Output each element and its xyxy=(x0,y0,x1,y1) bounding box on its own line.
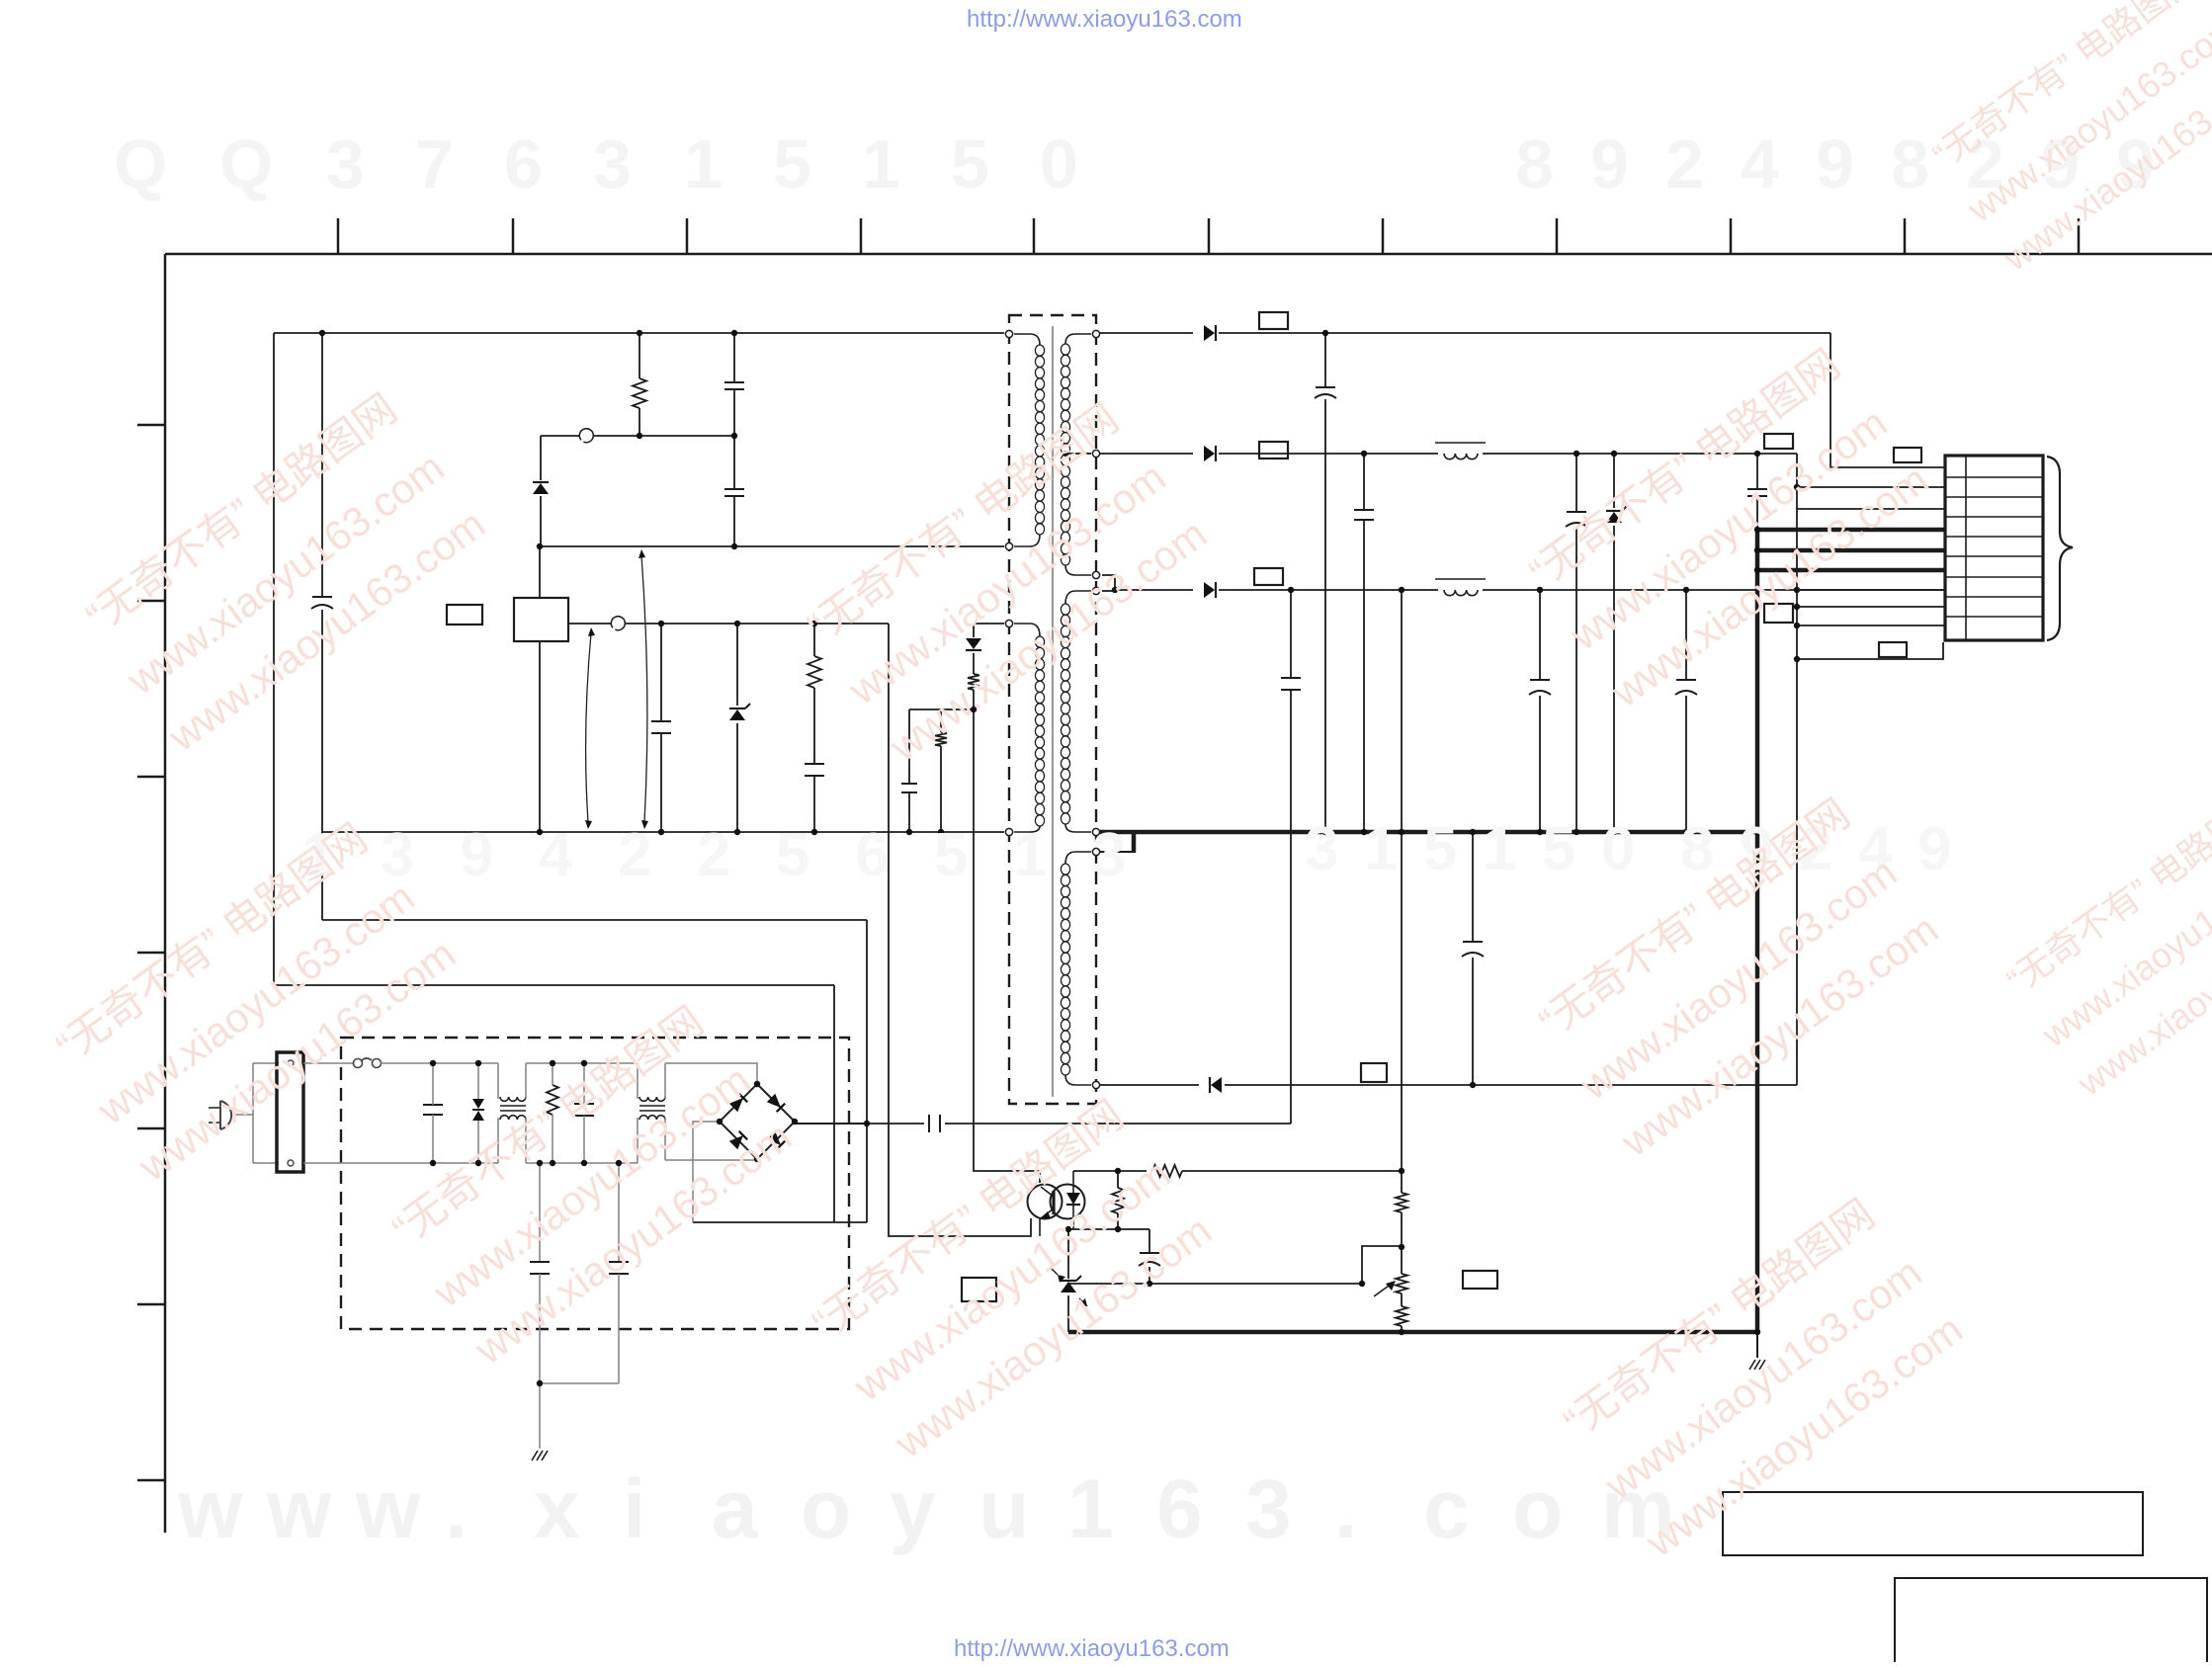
wire C12 top xyxy=(1539,590,1541,680)
capacitor C10 rail2 xyxy=(1566,512,1587,527)
wire C16 bottom xyxy=(432,1115,434,1163)
wire C14 top xyxy=(1472,831,1474,942)
wire snubber horizontal xyxy=(541,435,734,437)
zener diode D6 rail2 xyxy=(1606,506,1627,523)
svg-text:o: o xyxy=(801,1462,851,1555)
wire inner horizontal xyxy=(322,919,867,921)
red watermark 8 xyxy=(381,995,801,1374)
svg-text:7: 7 xyxy=(415,125,454,203)
transformer T1 primary pin bottom xyxy=(1005,542,1012,549)
wire C12 bottom xyxy=(1539,696,1541,832)
transformer T1 sec1 tap pin xyxy=(1092,450,1099,457)
wire R10 bottom xyxy=(552,1115,553,1163)
label box return xyxy=(1361,1063,1387,1082)
zener diode D2 xyxy=(729,704,750,720)
wire ac top a xyxy=(303,1062,353,1064)
diode D5 rail2 xyxy=(1204,446,1216,461)
capacitor C14 hang xyxy=(1462,942,1484,957)
wire R6 bottom xyxy=(1117,1213,1119,1229)
svg-text:y: y xyxy=(890,1462,936,1555)
wire C10 top xyxy=(1575,454,1577,512)
wire rail2 a xyxy=(1219,453,1438,455)
wire R4 bottom xyxy=(973,690,975,709)
wire C2 top xyxy=(733,436,735,489)
transformer T1 sec2 pin top xyxy=(1092,587,1099,594)
bridge BD1 diode tl xyxy=(729,1094,747,1112)
wire rail1 xyxy=(1219,332,1830,334)
svg-text:1: 1 xyxy=(1483,815,1516,883)
wire rail2 tap stub xyxy=(1069,453,1091,455)
wire ycap2 top xyxy=(618,1163,620,1262)
svg-text:3: 3 xyxy=(326,125,365,203)
wire row3 feed xyxy=(1797,508,1945,510)
wire plug fork xyxy=(252,1063,254,1163)
resistor R8 pot xyxy=(1396,1274,1407,1293)
wire divider chain top xyxy=(1401,590,1403,1193)
tvs D9 xyxy=(472,1099,484,1121)
ground chassis left xyxy=(532,1451,548,1460)
wire fork top xyxy=(253,1062,279,1064)
wire dc link right xyxy=(945,1123,1291,1125)
wire snubber corner xyxy=(540,436,542,480)
red watermark 5 xyxy=(1517,338,1937,716)
resistor R7 divider xyxy=(1396,1193,1407,1212)
red watermark small 2 xyxy=(1996,780,2212,1105)
wire ycap1 bottom xyxy=(539,1274,541,1383)
wire tl431 cathode xyxy=(1067,1229,1069,1279)
url watermark bottom xyxy=(954,1635,1230,1662)
red watermark small 1 xyxy=(1921,0,2212,279)
transformer T1 secondary3 winding xyxy=(1061,852,1091,1085)
red watermark 4 xyxy=(801,1089,1221,1467)
wire ac mid top xyxy=(526,1062,638,1064)
wire ycap link xyxy=(540,1382,619,1384)
svg-text:w: w xyxy=(266,1462,332,1555)
wire ac bottom a xyxy=(303,1162,498,1164)
capacitor C1 snubber xyxy=(724,382,744,389)
wire rail3 c xyxy=(1483,589,1945,591)
faint digits top left xyxy=(114,125,1078,203)
label box row1 xyxy=(1894,448,1921,462)
resistor R10 bleeder xyxy=(547,1085,558,1115)
svg-text:http://www.xiaoyu163.com: http://www.xiaoyu163.com xyxy=(954,1635,1230,1662)
capacitor C20 link xyxy=(311,597,333,609)
no-connect loop on U1 output xyxy=(611,617,625,630)
wire thick row6 xyxy=(1757,568,1945,573)
red watermark 6 xyxy=(1527,788,1947,1166)
svg-text:“无奇不有” 电路图网: “无奇不有” 电路图网 xyxy=(1999,782,2212,1001)
bridge BD1 diode br xyxy=(767,1131,785,1149)
transformer T1 primary winding xyxy=(1014,334,1045,546)
leader arrow 2 xyxy=(638,549,648,829)
wire fork bottom xyxy=(253,1162,279,1164)
svg-text:6: 6 xyxy=(1156,1462,1203,1555)
border left ruler line xyxy=(164,254,167,1533)
wire aux branch xyxy=(909,708,974,710)
wire bottom U link xyxy=(693,1221,867,1223)
svg-text:1: 1 xyxy=(1067,1462,1114,1555)
border left ruler ticks xyxy=(137,425,165,1480)
svg-text:2: 2 xyxy=(697,821,730,889)
wire under loop xyxy=(1797,642,1943,659)
wire rail1 drop to connector xyxy=(1830,333,1945,467)
capacitor C5 xyxy=(901,784,917,792)
label box near C11 xyxy=(1764,434,1793,449)
wire feedback riser xyxy=(1290,690,1292,1124)
capacitor C16 X xyxy=(423,1105,443,1115)
wire fb top xyxy=(1072,1171,1074,1185)
wire C8 bottom xyxy=(1324,399,1326,832)
transformer T1 secondary1 winding xyxy=(1061,334,1091,575)
svg-text:1: 1 xyxy=(1364,815,1398,883)
svg-text:5: 5 xyxy=(776,821,809,889)
wire aux down to opto xyxy=(974,709,1040,1183)
wire C3 bottom xyxy=(660,733,662,832)
svg-text:a: a xyxy=(712,1462,759,1555)
wire R1 top xyxy=(638,333,640,378)
title box 1 xyxy=(1723,1492,2143,1555)
transformer T1 aux pin top xyxy=(1005,620,1012,626)
label box row8 xyxy=(1764,604,1793,623)
resistor R2 xyxy=(808,656,821,688)
wire ac top b xyxy=(381,1062,498,1064)
wire C5 bottom xyxy=(908,792,910,832)
transformer T1 aux pin bottom xyxy=(1005,828,1012,835)
wire C4 bottom xyxy=(813,776,815,832)
diode D3 aux xyxy=(966,638,981,650)
wire tl431 anode xyxy=(1067,1295,1069,1332)
capacitor C4 xyxy=(805,764,824,776)
label box row9 xyxy=(1879,642,1907,657)
wire rail3 b xyxy=(1219,589,1438,591)
wire rail3 a xyxy=(1115,589,1193,591)
pot wiper arrow xyxy=(1374,1281,1396,1296)
transformer T1 core xyxy=(1052,326,1054,1097)
transformer T1 sec1 tap dot xyxy=(1063,451,1068,457)
wire fb step xyxy=(1362,1246,1402,1284)
wire plug stub xyxy=(235,1114,253,1116)
red watermark 1 xyxy=(74,382,494,761)
title box 2 xyxy=(1895,1578,2207,1667)
transformer T1 sec3 pin bottom xyxy=(1092,1081,1099,1088)
svg-text:Q: Q xyxy=(219,125,273,203)
wire R2 mid xyxy=(813,688,815,764)
ground chassis right xyxy=(1749,1360,1765,1370)
svg-text:6: 6 xyxy=(855,821,889,889)
wire R2 top xyxy=(813,624,815,656)
wire left outer vertical xyxy=(273,333,275,985)
wire C9 bottom xyxy=(1363,520,1365,832)
wire C9 top xyxy=(1363,454,1365,510)
wire feedback riser top xyxy=(1290,590,1292,678)
wire bridge bottom return xyxy=(756,1159,758,1160)
label box U1 xyxy=(447,605,482,625)
transformer T1 sec1 pin bottom xyxy=(1092,571,1099,578)
wire sec2 pin stub xyxy=(1100,851,1136,853)
red watermark 3 xyxy=(796,392,1216,771)
svg-text:0: 0 xyxy=(1601,815,1635,883)
wire R3 bottom xyxy=(940,746,942,832)
capacitor C8 rail1 xyxy=(1315,387,1336,398)
wire row7 feed xyxy=(1797,589,1945,591)
wire D9 bottom xyxy=(477,1121,479,1163)
wire inner drop lower xyxy=(321,610,323,920)
svg-text:6: 6 xyxy=(504,125,543,203)
label box pot xyxy=(1463,1271,1497,1289)
svg-text:w: w xyxy=(355,1462,421,1555)
wire row8 feed xyxy=(1797,606,1945,608)
wire rail3 junction stub xyxy=(1102,590,1117,592)
wire divider bottom xyxy=(1401,1326,1403,1332)
url watermark top xyxy=(967,6,1242,33)
wire C1 top xyxy=(733,333,735,382)
ac plug P1 xyxy=(209,1101,231,1129)
red watermark 7 xyxy=(1552,1188,1972,1566)
wire bridge bottom link xyxy=(665,1159,757,1161)
bridge rectifier BD1 outline xyxy=(720,1084,795,1159)
wire row2 feed xyxy=(1797,486,1945,488)
wire rail2 corner down xyxy=(1796,454,1798,487)
wire fb mid xyxy=(1068,1228,1149,1230)
resistor R1 snubber xyxy=(633,378,646,408)
optocoupler PC1 body xyxy=(1028,1185,1085,1219)
connector CN1 brace xyxy=(2047,457,2073,640)
inductor L1 rail2 xyxy=(1435,443,1486,459)
wire aux top xyxy=(974,623,1004,625)
label box rail2 xyxy=(1259,442,1288,458)
svg-text:8: 8 xyxy=(1680,815,1714,883)
resistor R3 aux xyxy=(935,732,947,746)
svg-text:9: 9 xyxy=(1590,125,1629,203)
wire C2 bottom xyxy=(733,496,735,546)
shunt regulator U2 xyxy=(1050,1267,1087,1306)
svg-text:8: 8 xyxy=(1891,125,1929,203)
capacitor C9 rail2 xyxy=(1354,510,1374,520)
ac connector J1 pins xyxy=(288,1060,294,1166)
wire rail2 b xyxy=(1483,453,1797,455)
wire C17 bottom xyxy=(583,1116,585,1163)
wire C8 top xyxy=(1324,333,1326,387)
choke L3 xyxy=(498,1063,526,1163)
wire ycap1 top xyxy=(539,1163,541,1262)
transformer T1 sec1 pin top xyxy=(1092,330,1099,337)
svg-text:i: i xyxy=(623,1462,645,1555)
faint digits middle left xyxy=(301,821,1126,889)
wire bridge left out xyxy=(693,1122,720,1222)
svg-text:3: 3 xyxy=(1245,1462,1292,1555)
wire primary feed xyxy=(540,545,1004,547)
transformer T1 secondary2 winding xyxy=(1061,591,1091,832)
wire rail3 from pins xyxy=(1102,575,1115,590)
wire thick row5 xyxy=(1757,548,1945,553)
capacitor C11 filter xyxy=(1747,489,1767,496)
label box rail3 xyxy=(1254,568,1283,585)
svg-text:5: 5 xyxy=(1542,815,1575,883)
wire opto emitter down xyxy=(1039,1218,1041,1236)
wire fb to divider b xyxy=(1182,1170,1402,1172)
wire C16 top xyxy=(432,1063,434,1105)
capacitor C2 snubber xyxy=(724,489,744,496)
svg-text:2: 2 xyxy=(618,821,651,889)
wire ycap1 gnd xyxy=(539,1383,541,1449)
wire ac to bridge top xyxy=(665,1063,757,1084)
wire thick row4 xyxy=(1757,528,1945,533)
wire C11 top xyxy=(1756,454,1758,489)
svg-text:1: 1 xyxy=(1013,821,1047,889)
transformer T1 aux winding xyxy=(1014,624,1045,832)
svg-text:8: 8 xyxy=(1515,125,1554,203)
wire ac mid bottom xyxy=(526,1162,638,1164)
wire inner drop from top rail xyxy=(321,333,323,597)
capacitor C19 Y xyxy=(609,1262,629,1274)
faint watermark bottom large xyxy=(177,1462,1675,1555)
border top ruler ticks xyxy=(338,218,2079,254)
wire divider mid a xyxy=(1401,1212,1403,1274)
transformer T1 box xyxy=(1009,315,1096,1104)
wire fb to divider xyxy=(1073,1170,1147,1172)
diode D8 return xyxy=(1210,1077,1222,1093)
svg-text:c: c xyxy=(1423,1462,1470,1555)
wire C15 top xyxy=(1149,1229,1150,1253)
bridge BD1 diode bl xyxy=(729,1131,747,1149)
svg-text:x: x xyxy=(534,1462,580,1555)
wire primary ground rail xyxy=(322,831,1004,833)
svg-text:5: 5 xyxy=(773,125,811,203)
wire D3 bottom xyxy=(973,653,975,674)
capacitor C18 Y xyxy=(530,1262,550,1274)
wire snubber diode lower xyxy=(540,496,542,546)
label box rail1 xyxy=(1259,312,1288,329)
svg-text:1: 1 xyxy=(684,125,723,203)
line filter dashed box xyxy=(341,1038,849,1329)
wire opto drive xyxy=(889,624,1031,1236)
diode D1 snubber xyxy=(533,482,549,494)
transformer T1 primary pin top xyxy=(1005,330,1012,337)
bridge BD1 diode tr xyxy=(767,1094,785,1112)
diode D7 rail3 xyxy=(1204,582,1216,598)
ac connector J1 box xyxy=(277,1052,303,1172)
optocoupler PC1 transistor xyxy=(1041,1187,1054,1218)
wire dc link xyxy=(867,1123,924,1125)
svg-text:Q: Q xyxy=(114,125,167,203)
capacitor C15 fb xyxy=(1139,1253,1160,1266)
svg-text:3: 3 xyxy=(593,125,632,203)
fuse F1 xyxy=(354,1058,382,1068)
transformer T1 sec2 pin bottom xyxy=(1092,828,1099,835)
red watermark 2 xyxy=(44,812,465,1191)
wire R1 bottom xyxy=(638,408,640,436)
wire thick ground vertical xyxy=(1755,530,1760,1334)
border top ruler line xyxy=(165,253,2212,256)
wire thick ground bus bottom xyxy=(1068,1330,1757,1335)
transformer T1 sec3 pin top xyxy=(1092,848,1099,855)
wire C10 bottom xyxy=(1575,528,1577,832)
capacitor C13 rail3 xyxy=(1675,680,1697,695)
wire D6 bottom xyxy=(1613,526,1615,832)
wire thick ground bus top xyxy=(1100,830,1757,835)
wire rail2 from pin xyxy=(1100,453,1193,455)
faint digits top right xyxy=(1515,125,2155,203)
capacitor C12 rail3 xyxy=(1529,680,1551,695)
svg-text:o: o xyxy=(1512,1462,1563,1555)
resistor R9 divider xyxy=(1396,1306,1407,1326)
svg-text:5: 5 xyxy=(1423,815,1457,883)
wire sec3 return xyxy=(1100,1084,1199,1086)
inductor L2 rail3 xyxy=(1435,579,1486,596)
resistor R6 fb xyxy=(1112,1188,1124,1213)
wire D2 bottom xyxy=(736,723,738,832)
wire U1 bottom pin xyxy=(539,641,541,832)
wire C3 top xyxy=(660,624,662,721)
diode D4 rail1 xyxy=(1204,325,1216,341)
wire ground stub xyxy=(1756,1332,1758,1358)
svg-text:.: . xyxy=(1334,1462,1357,1555)
wire C5 top xyxy=(908,709,910,784)
wire rail1 from pin xyxy=(1100,332,1193,334)
wire bridge right out xyxy=(795,1123,867,1125)
choke L4 xyxy=(638,1063,665,1163)
svg-text:9: 9 xyxy=(1917,815,1951,883)
wire sec3 return b xyxy=(1225,1084,1797,1086)
capacitor C17 X2 xyxy=(574,1104,594,1116)
wire opto led cathode xyxy=(1072,1219,1074,1229)
leader arrow 1 xyxy=(585,627,595,829)
svg-text:3: 3 xyxy=(1092,821,1126,889)
svg-text:2: 2 xyxy=(1665,125,1704,203)
svg-text:0: 0 xyxy=(1040,125,1078,203)
wire divider mid b xyxy=(1401,1293,1403,1306)
faint digits middle right xyxy=(1305,815,1951,883)
capacitor C6 series xyxy=(929,1115,940,1132)
svg-text:9: 9 xyxy=(460,821,493,889)
wire return riser xyxy=(1796,487,1798,1085)
wire top rail left segment xyxy=(274,332,1004,334)
svg-text:5: 5 xyxy=(934,821,968,889)
wire U1 output xyxy=(568,623,889,625)
wire thick step xyxy=(1132,834,1137,852)
svg-text:3: 3 xyxy=(1305,815,1338,883)
label box U2 xyxy=(962,1278,996,1301)
svg-text:9: 9 xyxy=(1816,125,1854,203)
wire C13 top xyxy=(1685,590,1687,680)
wire D3 top xyxy=(973,624,975,637)
svg-text:.: . xyxy=(445,1462,468,1555)
wire R6 top xyxy=(1117,1171,1119,1188)
svg-text:5: 5 xyxy=(951,125,989,203)
svg-text:1: 1 xyxy=(862,125,900,203)
no-connect loop on wire xyxy=(579,429,593,443)
wire C11 bottom xyxy=(1756,496,1758,530)
wire D2 top xyxy=(736,624,738,706)
capacitor C3 xyxy=(651,721,671,733)
wire U1 top pin xyxy=(539,546,541,598)
resistor R5 fb horizontal xyxy=(1152,1165,1182,1177)
svg-text:http://www.xiaoyu163.com: http://www.xiaoyu163.com xyxy=(967,6,1242,33)
wire ycap2 bottom xyxy=(618,1274,620,1383)
wire inner vertical xyxy=(866,920,868,1222)
wire C17 top xyxy=(583,1063,585,1104)
wire outer horizontal xyxy=(274,984,834,986)
ic U1 box xyxy=(514,598,568,641)
wire R3 top xyxy=(940,709,942,732)
wire C13 bottom xyxy=(1685,696,1687,832)
connector CN1 xyxy=(1945,456,2043,640)
svg-text:u: u xyxy=(978,1462,1029,1555)
wire C14 bottom xyxy=(1472,958,1474,1085)
wire C1 mid xyxy=(733,389,735,436)
wire row9 feed xyxy=(1797,625,1945,626)
svg-text:4: 4 xyxy=(539,821,573,889)
